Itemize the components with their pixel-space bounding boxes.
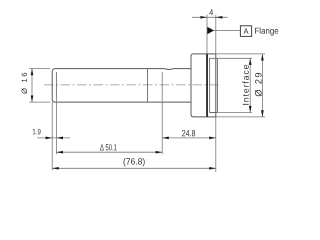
shaft end chamfer junction line	[55, 72, 57, 98]
dia16 dimension line	[31, 69, 33, 103]
dim 4 label	[209, 9, 213, 15]
dim 50.1 line	[56, 151, 162, 153]
dia16 label	[21, 73, 27, 94]
flange label	[255, 27, 278, 35]
dia29 dimension line	[261, 54, 263, 117]
flange right face extension up	[215, 15, 217, 54]
dim 1.9 arrow right	[46, 137, 53, 140]
shaft step edge line	[147, 69, 149, 103]
dim 1.9 label	[33, 129, 41, 135]
dim 24.8 arrow left	[162, 137, 169, 140]
interface arrow down	[249, 106, 252, 113]
dim 4 line	[192, 16, 228, 18]
dim 1.9 arrow left	[56, 137, 63, 140]
dim 50.1 delta label	[100, 144, 116, 150]
datum A letter	[244, 28, 249, 34]
dia29 arrow up	[261, 54, 264, 61]
dim 24.8 label	[182, 130, 195, 136]
flange face thick edge datum plane	[206, 54, 208, 117]
step extension line down	[161, 72, 163, 154]
dim 24.8 line	[162, 137, 216, 139]
dia16 arrow up	[31, 69, 34, 76]
interface span line	[249, 58, 251, 112]
dia16 bottom extension line	[29, 101, 50, 103]
right face extension line down	[215, 117, 217, 172]
dim 1.9 line	[37, 137, 70, 139]
dia29 arrow down	[261, 110, 264, 117]
dim 50.1 arrow right	[156, 151, 163, 154]
dim 4 arrow outside left	[200, 16, 207, 19]
dim 76.8 arrow right	[209, 167, 216, 170]
flange left face extension up	[206, 15, 208, 54]
dim 50.1 arrow left	[56, 151, 63, 154]
datum leader line	[213, 30, 240, 32]
center line	[44, 84, 220, 86]
datum A triangle	[207, 27, 214, 34]
flange cylinder outline	[191, 54, 216, 117]
dim 76.8 label	[124, 158, 145, 166]
dim 76.8 arrow left	[52, 167, 59, 170]
interface bottom extension right	[217, 112, 252, 114]
datum A frame box	[240, 26, 251, 37]
dia16 arrow down	[31, 96, 34, 103]
dia29 label	[255, 73, 262, 96]
dim 4 arrow outside right	[216, 16, 223, 19]
dim 24.8 arrow right	[209, 137, 216, 140]
interface label	[242, 65, 248, 105]
shaft cylinder outline	[52, 69, 191, 103]
dim 76.8 line	[52, 167, 216, 169]
interface arrow up	[249, 58, 252, 65]
flange bottom extension right	[216, 116, 265, 118]
flange top extension right	[216, 53, 265, 55]
chamfer extension line down	[55, 98, 57, 154]
left face extension line down	[51, 102, 53, 170]
interface top extension right	[217, 57, 252, 59]
dia16 top extension line	[29, 68, 50, 70]
interface spigot rectangle	[210, 58, 218, 112]
